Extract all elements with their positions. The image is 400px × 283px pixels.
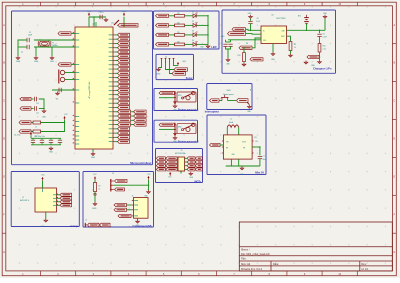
svg-text:IN: IN xyxy=(263,30,265,32)
svg-text:Chargeur LiPo: Chargeur LiPo xyxy=(313,66,332,70)
svg-text:R9: R9 xyxy=(294,44,296,46)
svg-text:C5 1u: C5 1u xyxy=(99,12,104,14)
svg-text:Size: A4: Size: A4 xyxy=(241,263,251,266)
svg-text:R2: R2 xyxy=(99,186,101,188)
svg-text:C8: C8 xyxy=(257,18,259,20)
svg-text:4.7uF: 4.7uF xyxy=(256,21,260,23)
svg-text:GND: GND xyxy=(91,157,96,159)
svg-text:BT1: BT1 xyxy=(298,15,301,17)
svg-text:D3: D3 xyxy=(192,31,194,33)
svg-text:ATmega328P-AU: ATmega328P-AU xyxy=(88,81,91,98)
svg-text:Interrupteur: Interrupteur xyxy=(205,110,219,113)
svg-text:1.1k: 1.1k xyxy=(323,49,326,51)
svg-text:VSS: VSS xyxy=(263,40,266,42)
svg-text:L1: L1 xyxy=(230,118,232,120)
svg-text:Alim 5V: Alim 5V xyxy=(255,171,265,174)
svg-text:HS: HS xyxy=(256,141,258,143)
svg-text:J1: J1 xyxy=(22,197,24,199)
svg-text:AVCC: AVCC xyxy=(122,10,128,13)
svg-text:C: C xyxy=(3,100,5,103)
svg-text:MCP73831: MCP73831 xyxy=(277,18,286,20)
svg-text:C2: C2 xyxy=(21,52,23,54)
svg-text:220: 220 xyxy=(177,22,180,24)
svg-text:J2: J2 xyxy=(132,196,134,198)
svg-text:VOUT: VOUT xyxy=(242,141,246,143)
svg-text:MOTs: MOTs xyxy=(195,180,202,183)
svg-text:R8: R8 xyxy=(246,43,248,45)
svg-text:D4: D4 xyxy=(192,40,194,42)
svg-text:C7: C7 xyxy=(263,156,265,158)
svg-text:GND: GND xyxy=(49,152,54,154)
svg-text:C11: C11 xyxy=(36,113,39,115)
svg-text:G: G xyxy=(3,251,5,254)
svg-text:D2: D2 xyxy=(192,21,194,23)
svg-text:68uF: 68uF xyxy=(263,159,267,161)
svg-text:C: C xyxy=(393,100,395,103)
svg-text:2k: 2k xyxy=(294,47,296,49)
svg-text:J5: J5 xyxy=(181,150,183,152)
svg-text:Bouton poussoir 2: Bouton poussoir 2 xyxy=(178,140,199,143)
svg-text:LED: LED xyxy=(211,45,216,49)
svg-text:R11: R11 xyxy=(323,46,326,48)
svg-text:avr-isp: avr-isp xyxy=(70,225,78,228)
svg-text:220: 220 xyxy=(177,41,180,43)
svg-text:2.2uF: 2.2uF xyxy=(323,37,327,39)
svg-text:220: 220 xyxy=(177,32,180,34)
svg-text:AVR-ISP-6: AVR-ISP-6 xyxy=(20,199,29,202)
svg-text:KiCad E.D.A. 9.0.2: KiCad E.D.A. 9.0.2 xyxy=(241,268,263,271)
svg-text:EN: EN xyxy=(226,147,228,149)
svg-text:R10: R10 xyxy=(238,55,241,57)
svg-text:16MHz: 16MHz xyxy=(52,45,58,47)
svg-text:C3: C3 xyxy=(56,99,58,101)
svg-text:Date:: Date: xyxy=(273,263,279,266)
svg-text:J4: J4 xyxy=(112,173,114,175)
svg-text:Rev:: Rev: xyxy=(362,263,367,266)
svg-text:G: G xyxy=(393,251,395,254)
svg-text:C4 4.7u: C4 4.7u xyxy=(14,135,20,137)
svg-text:SW2: SW2 xyxy=(178,127,182,129)
svg-text:FB: FB xyxy=(243,147,245,149)
svg-text:C10: C10 xyxy=(36,103,39,105)
svg-text:D: D xyxy=(3,138,5,141)
svg-text:GND: GND xyxy=(16,61,21,63)
svg-text:100n 100n 100n: 100n 100n 100n xyxy=(34,136,45,138)
svg-text:Sheet: /: Sheet: / xyxy=(241,249,250,252)
svg-text:File: M01_robot_head.sch: File: M01_robot_head.sch xyxy=(241,253,271,256)
svg-text:U3: U3 xyxy=(254,137,256,139)
svg-text:J5: J5 xyxy=(85,220,87,222)
svg-text:Bouton poussoir 1: Bouton poussoir 1 xyxy=(178,109,199,112)
svg-text:D: D xyxy=(393,138,395,141)
svg-text:Sonar: Sonar xyxy=(186,77,193,80)
svg-text:D1: D1 xyxy=(192,11,194,13)
svg-text:U2: U2 xyxy=(271,14,273,16)
svg-text:10k: 10k xyxy=(111,23,114,25)
svg-text:60uH: 60uH xyxy=(229,122,234,124)
svg-text:SW3: SW3 xyxy=(227,90,231,92)
svg-text:Title:: Title: xyxy=(241,258,247,261)
svg-text:VIN: VIN xyxy=(226,141,229,143)
svg-text:SW1: SW1 xyxy=(178,95,182,97)
svg-text:MOTEURS+: MOTEURS+ xyxy=(175,153,187,155)
svg-text:J3: J3 xyxy=(165,56,167,58)
svg-text:GND: GND xyxy=(34,61,39,63)
svg-text:GND: GND xyxy=(50,61,55,63)
svg-text:Microcontrolleur: Microcontrolleur xyxy=(130,161,151,165)
svg-text:C6: C6 xyxy=(323,34,325,36)
svg-text:220: 220 xyxy=(177,13,180,15)
svg-text:1k: 1k xyxy=(99,189,101,191)
svg-text:1k: 1k xyxy=(35,126,37,128)
svg-text:Id: 1/1: Id: 1/1 xyxy=(362,268,370,271)
